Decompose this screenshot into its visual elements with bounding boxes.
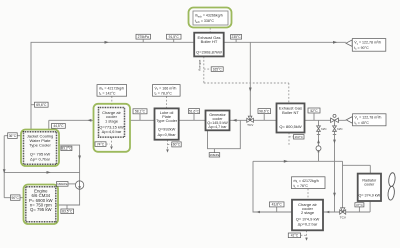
svg-text:2 stage: 2 stage — [301, 210, 315, 215]
svg-text:Δp=4,7 bar: Δp=4,7 bar — [208, 125, 227, 129]
svg-text:V̇c = 122,78 m³/h: V̇c = 122,78 m³/h — [354, 40, 381, 45]
svg-text:91,5°C: 91,5°C — [169, 35, 180, 39]
svg-text:83,5°C: 83,5°C — [62, 210, 73, 214]
svg-text:ṁL = 42172kg/h: ṁL = 42172kg/h — [99, 86, 124, 91]
svg-text:tc = 90°C: tc = 90°C — [354, 46, 369, 51]
svg-text:Δp=0,2 bar: Δp=0,2 bar — [298, 222, 318, 227]
svg-text:58,1°C: 58,1°C — [135, 110, 146, 114]
svg-text:Boiler HT: Boiler HT — [201, 39, 218, 44]
svg-text:Δp= 0,7bar: Δp= 0,7bar — [30, 156, 51, 161]
svg-text:41°C: 41°C — [291, 234, 299, 238]
svg-text:flue gas: flue gas — [198, 59, 202, 70]
svg-text:Q= 374,9 kW: Q= 374,9 kW — [358, 193, 380, 197]
svg-text:TCV: TCV — [340, 216, 347, 220]
svg-text:36°C: 36°C — [9, 134, 17, 138]
svg-text:Q= 800,5kW: Q= 800,5kW — [279, 124, 302, 129]
svg-text:V̇c = 122,78 m³/h: V̇c = 122,78 m³/h — [355, 115, 382, 120]
svg-text:Type Cooler: Type Cooler — [156, 118, 178, 123]
svg-text:98,6°C: 98,6°C — [259, 109, 270, 113]
svg-text:Boiler NT: Boiler NT — [282, 110, 299, 115]
svg-text:ṁL = 42172kg/h: ṁL = 42172kg/h — [294, 179, 319, 184]
svg-text:90°C: 90°C — [12, 196, 20, 200]
svg-text:1 stage: 1 stage — [105, 119, 119, 124]
svg-text:60°C: 60°C — [173, 143, 181, 147]
svg-text:Q=992kW: Q=992kW — [158, 126, 176, 131]
svg-text:tc = 78,9°C: tc = 78,9°C — [155, 91, 173, 96]
svg-text:N/C: N/C — [321, 127, 327, 131]
svg-text:Δp=0,9bar: Δp=0,9bar — [158, 132, 177, 137]
svg-text:43,8°C: 43,8°C — [272, 203, 283, 207]
svg-text:cooler: cooler — [364, 183, 375, 187]
svg-text:tL = 142°C: tL = 142°C — [99, 91, 116, 96]
svg-text:69,6°C: 69,6°C — [36, 103, 47, 107]
svg-text:74°C: 74°C — [97, 142, 105, 146]
svg-text:83,2°C: 83,2°C — [61, 147, 72, 151]
svg-text:165°C: 165°C — [213, 67, 223, 71]
svg-text:275kPa: 275kPa — [138, 35, 149, 39]
svg-text:166kPa: 166kPa — [57, 182, 68, 186]
svg-text:Q=2908,87kW: Q=2908,87kW — [196, 50, 222, 55]
svg-text:166kPa: 166kPa — [209, 153, 219, 157]
svg-text:TCV: TCV — [247, 123, 254, 127]
svg-text:Type Cooler: Type Cooler — [29, 143, 51, 148]
svg-text:51,6°C: 51,6°C — [189, 109, 200, 113]
svg-text:Q= 795 kW: Q= 795 kW — [30, 207, 53, 212]
svg-text:52°C: 52°C — [310, 109, 318, 113]
svg-text:tc = 45°C: tc = 45°C — [355, 121, 370, 126]
svg-text:235°C: 235°C — [231, 35, 241, 39]
svg-text:44,5°C: 44,5°C — [53, 124, 64, 128]
svg-text:37°C: 37°C — [356, 203, 364, 207]
svg-text:tL = 76°C: tL = 76°C — [294, 184, 309, 189]
svg-text:163°C: 163°C — [295, 135, 304, 139]
svg-text:V̇c = 166 m³/h: V̇c = 166 m³/h — [155, 86, 177, 91]
svg-text:N/C: N/C — [337, 127, 343, 131]
svg-text:Δp=4,6 bar: Δp=4,6 bar — [102, 129, 122, 134]
